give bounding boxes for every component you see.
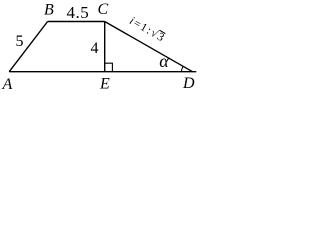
svg-text:B: B	[44, 2, 54, 19]
angle arc at D	[181, 66, 183, 72]
svg-text:D: D	[182, 75, 195, 92]
svg-text:E: E	[99, 76, 110, 93]
svg-text:α: α	[159, 51, 169, 71]
right angle mark at E	[105, 63, 113, 71]
svg-text:5: 5	[16, 33, 24, 50]
slope label i=1:sqrt3 on CD	[127, 14, 167, 45]
svg-text:4.5: 4.5	[67, 3, 90, 22]
svg-text:A: A	[2, 76, 13, 93]
wire BC (top side)	[48, 21, 105, 23]
wire CD (slope side)	[105, 22, 193, 72]
svg-text:C: C	[98, 1, 109, 18]
wire CE (height from C to E)	[104, 22, 106, 72]
wire AD (base line through E to D)	[9, 71, 196, 73]
wire AB (side AB of trapezoid)	[9, 22, 47, 72]
svg-text:4: 4	[91, 40, 99, 57]
